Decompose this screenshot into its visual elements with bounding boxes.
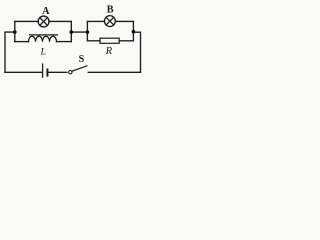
wire right-pair right vertical xyxy=(132,21,134,40)
wire right rail xyxy=(133,32,140,72)
svg-text:R: R xyxy=(105,46,113,57)
wire lamp A right xyxy=(49,20,72,22)
node N3 xyxy=(86,30,90,34)
inductor L coil xyxy=(29,36,57,41)
inductor L core bar xyxy=(30,34,58,36)
resistor R xyxy=(100,38,119,43)
wire inductor branch left xyxy=(15,41,29,43)
wire switch to right rail xyxy=(88,71,140,73)
wire left-pair left vertical xyxy=(14,21,16,41)
wire left-pair right vertical xyxy=(70,21,72,41)
wire resistor branch right xyxy=(119,40,133,42)
battery cell (long plate) xyxy=(42,64,44,77)
node N2 xyxy=(70,30,74,34)
wire bottom left (to battery) xyxy=(5,71,42,73)
lamp A xyxy=(38,16,49,27)
wire lamp B left xyxy=(87,20,104,22)
wire lamp A left xyxy=(15,20,39,22)
svg-text:B: B xyxy=(107,5,114,16)
switch S blade xyxy=(72,66,87,71)
wire resistor branch left xyxy=(87,40,100,42)
wire left rail xyxy=(5,32,15,72)
node N1 xyxy=(13,30,17,34)
svg-text:A: A xyxy=(42,6,50,17)
wire right-pair left vertical xyxy=(86,21,88,40)
battery cell (short thick plate) xyxy=(46,70,48,76)
wire lamp B right xyxy=(115,20,133,22)
wire connector N2 to N3 xyxy=(71,31,87,33)
switch S pivot xyxy=(69,71,72,74)
node N4 xyxy=(132,30,136,34)
wire inductor branch right xyxy=(57,41,72,43)
lamp B xyxy=(104,16,115,27)
wire battery to switch xyxy=(49,71,67,73)
svg-text:L: L xyxy=(39,46,45,57)
svg-text:S: S xyxy=(79,54,85,65)
